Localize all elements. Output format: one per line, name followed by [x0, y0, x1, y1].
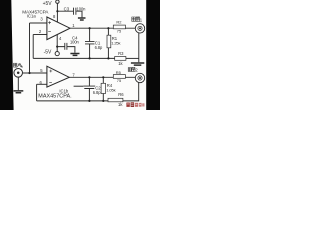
- wire IC1b feedback loop: [37, 84, 108, 101]
- wire input connector to IC1b pin 5: [23, 72, 47, 74]
- wire input connector to ground: [17, 77, 19, 90]
- svg-text:100n: 100n: [70, 39, 80, 44]
- junction C1 bottom: [89, 57, 91, 59]
- svg-text:100n: 100n: [77, 6, 87, 11]
- wire +5V junction to C3: [57, 11, 82, 17]
- svg-text:R6: R6: [118, 92, 124, 97]
- red watermark char 1: [126, 103, 129, 107]
- wire R1 branch: [107, 28, 109, 58]
- ground C3: [78, 18, 86, 20]
- label shuchu2 (output 2) glyph 1: [128, 68, 131, 72]
- resistor R5 box: [113, 75, 125, 79]
- label shuchu1 (output 1) glyph 2: [136, 17, 140, 22]
- svg-text:MAX457CPA.: MAX457CPA.: [38, 94, 71, 100]
- wire C2 branch: [88, 77, 90, 101]
- wire -5V junction to C4: [57, 47, 75, 53]
- wire inverting input IC1b pin 6: [37, 83, 47, 85]
- op-amp U1a plus sign: [48, 21, 51, 24]
- wire non-inverting input IC1a pin 3: [30, 22, 47, 24]
- black left border bar: [0, 0, 14, 110]
- junction R4 bottom: [102, 100, 104, 102]
- junction C2 bottom: [88, 100, 90, 102]
- connector output 2: [135, 73, 144, 82]
- svg-text:R2: R2: [116, 20, 122, 25]
- svg-text:6.8p: 6.8p: [95, 45, 103, 50]
- capacitor C2 plates: [83, 86, 95, 88]
- junction R1 bottom: [107, 57, 109, 59]
- junction input node: [28, 72, 30, 74]
- wire IC1b output pin 7: [69, 76, 136, 78]
- input arrow: [20, 63, 22, 66]
- svg-text:R5: R5: [116, 70, 122, 75]
- svg-text:+5V: +5V: [43, 1, 53, 7]
- svg-text:C3: C3: [64, 6, 70, 11]
- red watermark char 2: [131, 102, 135, 107]
- label shuchu1 (output 1) glyph 1: [132, 17, 136, 21]
- op-amp U1a triangle: [47, 17, 70, 40]
- junction C1 top: [89, 27, 91, 29]
- ground output1/R3: [131, 63, 144, 65]
- connector output 1: [135, 24, 144, 33]
- op-amp U1a minus sign: [48, 31, 51, 33]
- paper background: [0, 0, 160, 110]
- wire IC1a output pin 1: [70, 27, 136, 29]
- resistor R2 box: [113, 25, 125, 29]
- svg-text:75: 75: [117, 78, 121, 83]
- label shuru (input) glyph 1: [14, 63, 17, 67]
- ground input: [14, 91, 24, 93]
- svg-text:6.8p: 6.8p: [93, 90, 101, 95]
- svg-text:-5V: -5V: [44, 50, 52, 56]
- wire +5V vertical to pin 8: [56, 3, 58, 22]
- junction R4 top: [102, 76, 104, 78]
- wire R6 to output2 shield: [123, 83, 139, 101]
- label shuru (input) glyph 2: [18, 63, 21, 67]
- wire feedback mid bus: [33, 57, 115, 59]
- op-amp U1b plus sign: [49, 70, 52, 73]
- wire C2 plate stub: [74, 85, 84, 87]
- wire inverting input IC1a pin 2: [33, 34, 47, 36]
- resistor R1 box: [107, 35, 111, 48]
- wire pin 4 down to -5V: [56, 35, 58, 52]
- wire R4 branch: [102, 77, 104, 101]
- svg-text:R3: R3: [118, 51, 124, 56]
- capacitor C4 plates: [65, 43, 67, 50]
- junction R1 top: [107, 27, 109, 29]
- terminal +5V circle: [56, 0, 59, 3]
- svg-text:IC1a: IC1a: [27, 14, 37, 19]
- resistor R6 box: [108, 98, 123, 102]
- wire R3 to ground: [126, 57, 139, 59]
- wire input node vertical: [29, 23, 31, 73]
- black right border bar: [146, 0, 160, 110]
- red watermark char 4: [139, 103, 142, 107]
- capacitor C1 plates: [85, 42, 95, 44]
- op-amp U1b triangle: [47, 66, 69, 87]
- terminal -5V circle: [55, 52, 59, 56]
- red watermark char 5: [142, 103, 144, 106]
- wire IC1a feedback loop down: [32, 35, 34, 59]
- svg-text:75: 75: [117, 28, 121, 33]
- svg-text:1.05k: 1.05k: [106, 87, 115, 92]
- connector input: [14, 69, 23, 78]
- op-amp U1b minus sign: [49, 82, 52, 84]
- junction +5V/C3: [56, 10, 58, 12]
- wire C1 branch: [89, 28, 91, 58]
- capacitor C3 plates: [74, 8, 76, 15]
- red watermark char 3: [135, 103, 138, 107]
- svg-text:1.25k: 1.25k: [111, 40, 120, 45]
- junction C2 top: [88, 76, 90, 78]
- junction -5V/C4: [56, 46, 58, 48]
- wire output1 shield down to ground: [138, 33, 140, 62]
- label shuchu2 (output 2) glyph 2: [132, 67, 135, 71]
- resistor R4 box: [101, 83, 105, 93]
- resistor R3 box: [115, 57, 126, 61]
- ground C4: [70, 54, 79, 56]
